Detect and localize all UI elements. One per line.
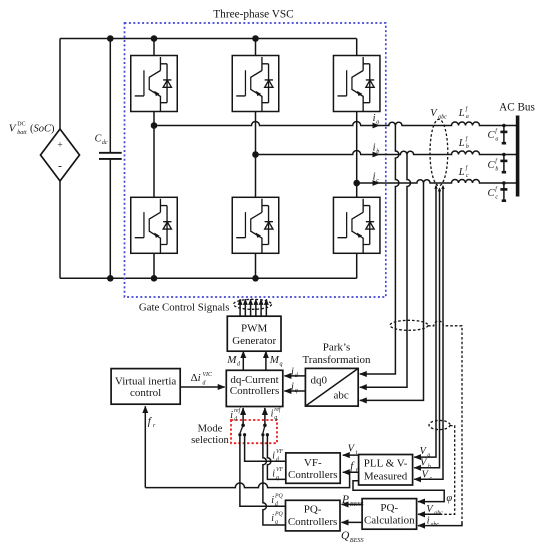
label PQ-Controllers xyxy=(288,503,338,527)
svg-text:Controllers: Controllers xyxy=(230,385,280,397)
svg-text:i: i xyxy=(272,450,275,461)
PWM Generator box xyxy=(227,316,281,351)
switch 2 lever xyxy=(263,425,265,433)
svg-text:Q: Q xyxy=(341,530,350,542)
filter capacitor C_a^f xyxy=(500,124,507,144)
svg-text:L: L xyxy=(458,108,465,119)
svg-text:f: f xyxy=(466,105,469,112)
svg-text:φ: φ xyxy=(446,493,452,504)
IGBT module Q5 xyxy=(232,197,279,253)
measurement ellipse i_abc xyxy=(390,320,428,330)
label V_c xyxy=(422,470,433,483)
svg-text:f: f xyxy=(466,135,469,142)
svg-text:Mode: Mode xyxy=(198,423,223,434)
svg-text:f: f xyxy=(495,127,498,134)
battery source V_batt diamond xyxy=(41,129,80,181)
wire: i_q^VF from switch2 to VF-Controllers with hop xyxy=(267,435,286,479)
svg-text:i: i xyxy=(230,410,233,421)
svg-text:(SoC): (SoC) xyxy=(30,124,55,135)
arrow i_d Park to dq controllers xyxy=(284,375,305,377)
gate control signal arrows xyxy=(240,299,266,316)
wire: i_q^PQ from switch2 to PQ-Controllers with hops xyxy=(263,435,286,525)
svg-text:d: d xyxy=(203,381,206,387)
svg-text:a: a xyxy=(376,120,379,126)
wire: i_abc into PQ-Calculation xyxy=(418,523,462,526)
label Virtual inertia control xyxy=(115,376,176,400)
svg-text:V: V xyxy=(348,443,356,454)
svg-text:f: f xyxy=(350,460,355,472)
label i_d xyxy=(291,367,299,380)
svg-text:b: b xyxy=(495,166,498,172)
label i_b xyxy=(373,142,380,155)
svg-text:dq0: dq0 xyxy=(311,374,328,386)
arrow delta i_d^VIC VIC to dq controllers xyxy=(180,386,225,388)
junction dot phase b xyxy=(252,151,259,158)
wire: voltage tap V_b to PLL xyxy=(414,189,439,468)
svg-text:PQ-: PQ- xyxy=(380,502,398,514)
label i_q xyxy=(291,382,298,395)
svg-text:Three-phase VSC: Three-phase VSC xyxy=(213,8,293,20)
label V_b xyxy=(420,458,431,471)
wire: DC bottom bus xyxy=(60,277,357,279)
label i_q^PQ xyxy=(271,511,283,525)
svg-text:selection: selection xyxy=(191,435,229,446)
svg-text:V: V xyxy=(420,458,428,469)
wire: i_d^PQ from switch1 to PQ-Controllers xyxy=(240,435,286,506)
svg-text:d: d xyxy=(276,457,279,463)
junction dot phase c xyxy=(353,180,360,187)
arrow i_q^ref switch to dq controllers xyxy=(264,408,266,425)
svg-text:BESS: BESS xyxy=(350,537,364,544)
svg-text:i: i xyxy=(373,113,376,124)
svg-text:control: control xyxy=(130,387,161,399)
svg-text:Park’s: Park’s xyxy=(323,342,351,354)
svg-text:C: C xyxy=(95,134,102,145)
junction dot bottom bus / C_dc xyxy=(107,275,114,282)
svg-text:AC Bus: AC Bus xyxy=(499,102,535,114)
label f_r left xyxy=(148,416,156,430)
Virtual inertia control box xyxy=(111,369,180,405)
svg-text:M: M xyxy=(269,354,280,366)
label Q_BESS xyxy=(341,530,364,544)
switch 1 lever xyxy=(240,425,243,433)
wire: leg a upper xyxy=(153,39,155,279)
svg-text:L: L xyxy=(458,167,465,178)
svg-text:BESS: BESS xyxy=(350,501,364,508)
svg-text:DC: DC xyxy=(17,122,25,128)
label PLL & V-Measured xyxy=(364,458,408,483)
svg-text:P: P xyxy=(341,494,349,506)
label Mode selection xyxy=(191,423,229,446)
svg-text:PQ-: PQ- xyxy=(304,503,322,515)
svg-text:batt: batt xyxy=(17,130,27,136)
svg-text:V: V xyxy=(420,446,428,457)
svg-text:V: V xyxy=(430,108,438,119)
svg-text:c: c xyxy=(466,173,469,179)
svg-text:Measured: Measured xyxy=(364,471,408,483)
IGBT module Q3 xyxy=(333,56,380,112)
wire: phase a with hops, CT humps, filter inductor L_a xyxy=(154,122,516,126)
svg-text:+: + xyxy=(57,141,62,151)
svg-text:VF: VF xyxy=(276,449,284,455)
svg-text:abc: abc xyxy=(334,389,349,401)
wire: current tap i_c down to Park input xyxy=(360,183,424,400)
junction dot bottom bus / leg a xyxy=(151,275,158,282)
svg-text:i: i xyxy=(291,382,294,393)
label i_a xyxy=(373,113,380,126)
wire: current tap i_a down to Park input with hops xyxy=(360,126,399,375)
IGBT module Q6 xyxy=(333,197,380,253)
label i_abc at PQ-Calculation xyxy=(427,515,440,528)
svg-text:Generator: Generator xyxy=(232,335,276,347)
label i_q^ref xyxy=(271,406,282,421)
svg-text:C: C xyxy=(488,160,496,171)
wire: battery branch top xyxy=(59,39,61,130)
measurement ellipse V_abc xyxy=(430,119,448,185)
label C_c^f xyxy=(488,185,499,200)
svg-text:i: i xyxy=(291,367,294,378)
svg-text:V: V xyxy=(9,123,17,135)
label i_c xyxy=(373,171,380,184)
svg-text:q: q xyxy=(280,362,283,368)
switch 2 pole dot xyxy=(263,424,267,428)
label P_BESS xyxy=(341,494,364,508)
VF-Controllers box xyxy=(286,453,340,483)
svg-text:a: a xyxy=(495,136,498,142)
IGBT module Q4 xyxy=(131,197,178,253)
label i_d^PQ xyxy=(271,493,283,507)
wire: voltage tap V_a to PLL xyxy=(414,186,436,457)
wire: f_r net from PLL with hops xyxy=(145,472,349,487)
arrow M_d dq box to PWM xyxy=(242,351,244,370)
svg-text:b: b xyxy=(428,464,431,470)
svg-text:Gate Control Signals: Gate Control Signals xyxy=(139,301,230,313)
svg-text:i: i xyxy=(272,468,275,479)
svg-text:q: q xyxy=(275,520,278,526)
svg-text:q: q xyxy=(274,415,277,421)
label M_d xyxy=(226,354,241,368)
arrow Q_BESS PQ-Calculation to PQ-Controllers xyxy=(342,521,363,523)
svg-text:Δi: Δi xyxy=(191,372,201,384)
svg-text:q: q xyxy=(276,475,279,481)
label Park's Transformation xyxy=(302,342,371,366)
svg-text:f: f xyxy=(495,157,498,164)
label C_dc xyxy=(95,134,108,147)
svg-text:L: L xyxy=(458,138,465,149)
label V_abc at PQ-Calculation xyxy=(426,504,443,517)
svg-text:q: q xyxy=(295,388,298,394)
wire: voltage tap V_c to PLL xyxy=(414,187,443,480)
junction dot bottom bus / leg b xyxy=(252,275,259,282)
svg-text:ref: ref xyxy=(234,407,242,414)
junction dot phase a xyxy=(151,122,158,129)
svg-text:b: b xyxy=(466,144,469,150)
arrow f_r into VF-Controllers xyxy=(343,471,359,473)
svg-text:d: d xyxy=(234,416,237,422)
wire: i_d^VF from switch1 to VF-Controllers xyxy=(245,435,287,461)
wire: DC top bus xyxy=(60,38,357,40)
capacitor C_dc xyxy=(99,39,122,279)
label PWM Generator xyxy=(232,322,276,347)
dashed link i_abc to PQ-Calculation xyxy=(428,321,462,523)
svg-text:C: C xyxy=(488,130,496,141)
arrow V_t PLL to VF-Controllers xyxy=(343,454,359,456)
junction dot top bus / leg b xyxy=(252,35,259,42)
label L_a^f xyxy=(458,105,469,120)
switch 1 pole dot xyxy=(241,424,245,428)
dq-Current Controllers box xyxy=(226,370,282,406)
svg-text:f: f xyxy=(495,185,498,192)
label V_t xyxy=(348,443,358,456)
svg-text:i: i xyxy=(271,513,274,524)
label L_b^f xyxy=(458,135,469,150)
measurement ellipse V_abc small xyxy=(429,420,450,429)
svg-text:M: M xyxy=(226,354,237,366)
svg-text:i: i xyxy=(373,171,376,182)
svg-text:abc: abc xyxy=(434,511,443,517)
svg-text:Controllers: Controllers xyxy=(288,516,338,528)
arrow i_d^ref switch to dq controllers xyxy=(242,408,244,425)
svg-text:b: b xyxy=(376,149,379,155)
label i_d^VF xyxy=(272,449,283,463)
svg-text:PLL & V-: PLL & V- xyxy=(364,458,408,470)
arrow f_r into VIC xyxy=(144,406,146,487)
filter capacitor C_b^f xyxy=(500,153,507,173)
label M_q xyxy=(269,354,283,368)
junction dot top bus / leg a xyxy=(151,35,158,42)
switch 2 contact dots xyxy=(261,433,269,436)
label VF-Controllers xyxy=(288,457,338,481)
PLL and V-Measured box xyxy=(359,455,413,486)
label L_c^f xyxy=(458,164,469,179)
label i_d^ref xyxy=(230,407,241,422)
arrow i_a on phase a xyxy=(373,123,381,129)
svg-text:Transformation: Transformation xyxy=(302,354,371,366)
switch 1 contact dots xyxy=(238,433,246,436)
svg-text:Virtual inertia: Virtual inertia xyxy=(115,376,176,388)
wire: current tap i_b down to Park input with hop xyxy=(360,155,411,388)
PQ-Controllers box xyxy=(286,500,341,531)
svg-text:i: i xyxy=(373,142,376,153)
wire: phase b with hop, CT humps, filter inductor L_b xyxy=(256,151,517,155)
svg-text:Calculation: Calculation xyxy=(364,514,415,526)
wire: phi from PLL to PQ-Calculation xyxy=(353,481,444,502)
gate signals ellipse xyxy=(234,299,272,309)
svg-text:i: i xyxy=(271,409,274,420)
label i_q^VF xyxy=(272,467,283,481)
label V_abc top xyxy=(430,108,447,121)
svg-text:Controllers: Controllers xyxy=(288,469,338,481)
svg-text:f: f xyxy=(466,164,469,171)
arrow i_c on phase c xyxy=(373,180,381,186)
arrow i_b on phase b xyxy=(373,152,381,158)
arrow M_q dq box to PWM xyxy=(265,351,267,370)
svg-text:-: - xyxy=(58,159,62,173)
svg-text:dc: dc xyxy=(102,140,108,146)
wire: V_abc into PQ-Calculation xyxy=(418,513,441,515)
svg-text:i: i xyxy=(271,495,274,506)
svg-text:VF: VF xyxy=(276,467,284,473)
IGBT module Q2 xyxy=(232,56,279,112)
AC Bus bar xyxy=(516,116,520,197)
wire: phase c with CT humps, filter inductor L_c xyxy=(357,180,517,183)
arrow i_q Park to dq controllers xyxy=(284,390,305,392)
mode selection red dotted box xyxy=(231,420,277,443)
PQ-Calculation box xyxy=(362,499,417,530)
wire: leg c upper xyxy=(356,39,358,279)
IGBT module Q1 xyxy=(131,56,178,112)
svg-text:VIC: VIC xyxy=(203,372,212,378)
Park's Transformation box xyxy=(305,368,358,406)
wire: battery branch bottom xyxy=(59,181,61,278)
label dq-Current Controllers xyxy=(230,374,280,397)
label V_batt^DC (SoC) xyxy=(9,122,55,137)
svg-text:d: d xyxy=(237,362,241,368)
label delta i_d^VIC xyxy=(191,372,212,387)
dashed link V_abc to PQ-Calculation xyxy=(441,426,455,515)
svg-text:C: C xyxy=(488,188,496,199)
svg-text:abc: abc xyxy=(431,522,440,528)
wire: leg b upper xyxy=(255,39,257,279)
svg-text:VF-: VF- xyxy=(304,457,322,469)
junction dot top bus / C_dc xyxy=(107,35,114,42)
svg-text:d: d xyxy=(275,502,278,508)
label C_b^f xyxy=(488,157,499,172)
svg-text:r: r xyxy=(153,423,156,429)
svg-text:c: c xyxy=(429,476,432,482)
label C_a^f xyxy=(488,127,499,142)
svg-text:PQ: PQ xyxy=(274,511,284,517)
svg-text:c: c xyxy=(495,194,498,200)
filter capacitor C_c^f xyxy=(500,181,507,201)
svg-text:a: a xyxy=(427,453,430,459)
svg-text:c: c xyxy=(376,178,379,184)
label V_a xyxy=(420,446,431,459)
Three-phase VSC dotted boundary xyxy=(125,23,386,297)
arrow P_BESS PQ-Calculation to PQ-Controllers xyxy=(342,503,363,505)
svg-text:PQ: PQ xyxy=(274,493,284,499)
svg-text:i: i xyxy=(427,515,430,526)
svg-text:abc: abc xyxy=(438,114,447,120)
svg-text:V: V xyxy=(426,504,434,515)
label f_r at PLL xyxy=(350,460,358,474)
svg-text:a: a xyxy=(466,114,469,120)
label PQ-Calculation xyxy=(364,502,415,526)
svg-text:PWM: PWM xyxy=(241,322,268,334)
